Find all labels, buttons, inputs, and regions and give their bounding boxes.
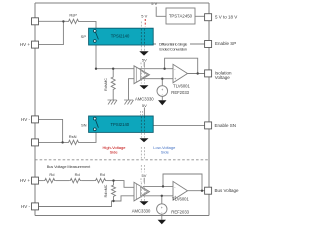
svg-text:Rd: Rd <box>49 172 54 177</box>
svg-text:5 V: 5 V <box>141 13 147 18</box>
svg-text:Rd: Rd <box>75 172 80 177</box>
svg-text:TPSI2140: TPSI2140 <box>111 34 130 39</box>
svg-text:RdivMC: RdivMC <box>104 78 108 91</box>
svg-text:-: - <box>161 210 162 214</box>
svg-text:-: - <box>162 92 163 96</box>
svg-text:5V: 5V <box>142 58 147 63</box>
svg-text:REF2033: REF2033 <box>171 209 189 214</box>
svg-text:TLV6001: TLV6001 <box>173 84 190 89</box>
svg-text:Enable SP: Enable SP <box>215 41 236 46</box>
svg-text:RsN: RsN <box>69 134 77 139</box>
svg-text:Side: Side <box>110 149 119 154</box>
svg-text:REF2033: REF2033 <box>171 90 189 95</box>
svg-text:Side: Side <box>161 149 170 154</box>
svg-text:TLV6001: TLV6001 <box>172 197 189 202</box>
svg-text:Rd: Rd <box>100 172 105 177</box>
svg-text:Enable SN: Enable SN <box>215 123 237 128</box>
svg-text:TPSI2140: TPSI2140 <box>110 122 129 127</box>
svg-text:RdivMC: RdivMC <box>104 184 108 197</box>
svg-text:TPS7A2450: TPS7A2450 <box>169 13 193 18</box>
svg-text:5 V: 5 V <box>151 1 157 6</box>
svg-text:HV -: HV - <box>21 204 31 209</box>
svg-text:Bus Voltage: Bus Voltage <box>215 188 240 193</box>
svg-text:5 V to 18 V: 5 V to 18 V <box>215 14 237 19</box>
svg-text:Bus Voltage Measurement: Bus Voltage Measurement <box>47 164 91 169</box>
svg-text:Ended Conversion: Ended Conversion <box>159 46 186 51</box>
svg-text:AMC3330: AMC3330 <box>132 209 151 214</box>
svg-text:HV +: HV + <box>20 178 31 183</box>
svg-text:5V: 5V <box>142 173 147 178</box>
svg-text:SP: SP <box>81 34 87 39</box>
svg-text:5V: 5V <box>142 103 147 108</box>
svg-text:Voltage: Voltage <box>215 75 231 80</box>
svg-text:AMC3330: AMC3330 <box>135 96 154 101</box>
svg-text:+: + <box>161 88 163 92</box>
svg-text:HV -: HV - <box>21 117 31 122</box>
svg-text:SN: SN <box>81 122 87 127</box>
svg-text:HV +: HV + <box>20 42 31 47</box>
svg-text:RsP: RsP <box>69 12 77 17</box>
svg-text:+: + <box>174 77 176 81</box>
